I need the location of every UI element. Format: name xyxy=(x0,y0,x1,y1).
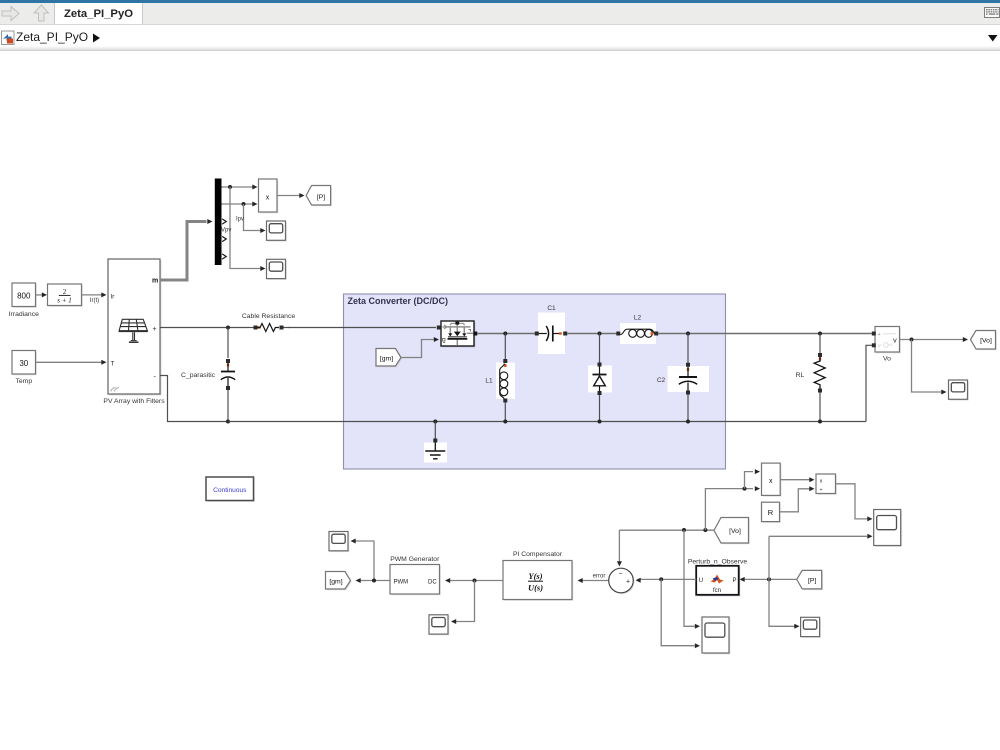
sum block xyxy=(609,568,635,594)
PI Compensator block xyxy=(503,551,573,601)
wire PI to PWM and scope xyxy=(445,578,503,624)
wire product to [P] xyxy=(277,193,305,198)
small corner glyph xyxy=(111,388,120,392)
capacitor C1 xyxy=(535,305,567,354)
svg-text:C2: C2 xyxy=(657,377,666,384)
svg-text:Continuous: Continuous xyxy=(213,487,247,494)
svg-text:L1: L1 xyxy=(485,378,493,385)
svg-text:C1: C1 xyxy=(547,305,556,312)
capacitor C2 (vertical) xyxy=(657,334,709,424)
resistor RL (vertical) xyxy=(796,334,826,424)
wire Vo to [Vo] tag and scope xyxy=(900,337,969,395)
svg-text:Temp: Temp xyxy=(15,378,32,385)
svg-text:Ir: Ir xyxy=(111,293,115,300)
breadcrumb model arrow xyxy=(93,34,100,43)
wire PWM to gm tag xyxy=(356,578,391,583)
constant R xyxy=(762,502,781,523)
scope gm xyxy=(329,532,349,553)
wire transfer fcn to PV Ir, label Ir(t) xyxy=(82,292,107,303)
svg-text:Vpv: Vpv xyxy=(221,227,231,233)
svg-text:m: m xyxy=(152,277,158,284)
wire P&O U out to sum + xyxy=(636,577,697,582)
mosfet block xyxy=(437,321,478,347)
svg-text:Perturb_n_Observe: Perturb_n_Observe xyxy=(688,559,748,566)
toolbar up arrow icon xyxy=(34,5,49,21)
wire demux out1 to product and scope (Vpv) xyxy=(222,185,266,272)
wire demux out2 to product and scope (Ipv) xyxy=(221,202,266,234)
demux (black bar) xyxy=(215,179,226,266)
wire P to scope P (input2) xyxy=(769,534,873,539)
transfer fcn 2/(s+1) xyxy=(48,284,83,307)
MATLAB function Perturb_n_Observe xyxy=(688,559,748,597)
breadcrumb simulink icon xyxy=(2,31,15,45)
svg-text:U: U xyxy=(699,578,703,584)
svg-text:2: 2 xyxy=(63,288,67,296)
powergui block Continuous xyxy=(206,477,255,502)
svg-text:+: + xyxy=(626,578,630,585)
svg-text:fcn: fcn xyxy=(713,588,721,594)
svg-text:30: 30 xyxy=(19,359,28,368)
svg-text:U(s): U(s) xyxy=(528,582,543,592)
wire R to divide xyxy=(780,486,815,512)
constant Temp 30 xyxy=(12,351,37,385)
svg-text:s + 1: s + 1 xyxy=(57,296,71,304)
wire Vo path into sum (top) xyxy=(617,530,622,567)
svg-text:error: error xyxy=(593,573,606,579)
ground xyxy=(424,420,447,463)
scope duty xyxy=(429,615,449,636)
goto tag [Vo] xyxy=(971,331,997,351)
svg-text:x: x xyxy=(769,478,773,485)
divide block xyxy=(816,474,837,495)
svg-text:PV Array with Filters: PV Array with Filters xyxy=(103,398,165,405)
svg-text:800: 800 xyxy=(17,292,31,301)
scope P (2 inputs) xyxy=(874,510,902,547)
diode D (vertical) xyxy=(588,334,612,424)
inductor L2 xyxy=(616,315,658,344)
wire gm to mosfet gate xyxy=(401,337,439,358)
goto tag [gm] bottom xyxy=(326,572,352,591)
toolbar forward arrow icon xyxy=(2,7,19,21)
wire 30 to PV T xyxy=(36,360,107,365)
svg-text:PWM: PWM xyxy=(394,579,409,585)
svg-text:[P]: [P] xyxy=(808,578,816,585)
scope V/U bottom (2 inputs) xyxy=(702,617,730,654)
scope Vo xyxy=(949,380,969,401)
breadcrumb dropdown triangle xyxy=(988,35,998,42)
scope small right xyxy=(801,617,821,638)
svg-text:Cable Resistance: Cable Resistance xyxy=(242,313,295,320)
svg-text:P: P xyxy=(733,578,737,584)
svg-text:DC: DC xyxy=(428,579,437,585)
svg-text:[Vo]: [Vo] xyxy=(729,528,741,535)
svg-text:−: − xyxy=(618,571,622,578)
svg-text:÷: ÷ xyxy=(820,487,823,493)
top rail mosfet to C1 xyxy=(477,332,536,336)
inductor L1 (vertical) xyxy=(485,334,515,424)
svg-text:PI Compensator: PI Compensator xyxy=(513,551,563,558)
svg-text:+: + xyxy=(153,326,157,333)
from tag [Vo] bottom xyxy=(714,518,750,545)
svg-text:Vo: Vo xyxy=(883,356,891,363)
tiny matlab logo xyxy=(711,575,724,584)
wire bottom rail up to Vo- xyxy=(866,345,872,421)
wire U to scope bottom (input2) xyxy=(661,579,700,648)
wire PV+ to mosfet xyxy=(160,326,436,330)
wire divide to scope P xyxy=(836,484,873,522)
goto tag [P] xyxy=(306,186,332,207)
wire PV- to bottom rail xyxy=(160,376,230,424)
svg-text:Ir(t): Ir(t) xyxy=(90,298,99,304)
PWM Generator block xyxy=(390,556,441,596)
svg-text:Irradiance: Irradiance xyxy=(9,311,39,318)
product block x (Vo^2) xyxy=(762,463,782,497)
wire sum to PI (error) xyxy=(578,573,609,583)
bottom rail xyxy=(228,421,866,423)
scope Ipv xyxy=(267,221,287,242)
keyboard icon top right xyxy=(985,8,1000,18)
svg-text:[gm]: [gm] xyxy=(329,579,342,586)
svg-text:Y(s): Y(s) xyxy=(528,571,542,581)
svg-text:[Vo]: [Vo] xyxy=(980,338,992,345)
from tag [gm] top xyxy=(376,349,402,368)
subsystem PV Array with Filters xyxy=(103,259,165,405)
product block x xyxy=(259,179,279,213)
svg-text:[P]: [P] xyxy=(317,194,325,201)
from tag [P] bottom xyxy=(797,570,823,590)
svg-text:T: T xyxy=(111,361,115,368)
wire 800 to transfer fcn xyxy=(36,292,48,297)
wire m (thick) xyxy=(160,219,213,280)
subsystem box Zeta Converter (DC/DC) xyxy=(344,294,726,469)
resistor Cable Resistance xyxy=(242,313,295,337)
svg-text:C_parasitic: C_parasitic xyxy=(181,372,216,379)
svg-text:Ipv: Ipv xyxy=(236,217,244,223)
svg-text:v: v xyxy=(893,336,897,345)
scope Vpv xyxy=(267,259,287,280)
svg-text:[gm]: [gm] xyxy=(380,356,393,363)
svg-text:PWM Generator: PWM Generator xyxy=(390,556,440,563)
voltage measurement Vo xyxy=(872,327,901,363)
svg-text:+: + xyxy=(878,332,881,338)
svg-text:RL: RL xyxy=(796,372,805,379)
solar panel icon xyxy=(119,319,148,342)
svg-text:R: R xyxy=(768,508,774,517)
constant Irradiance 800 xyxy=(9,283,39,318)
wire Vo branch down to scope bottom (input1) xyxy=(684,530,700,629)
wire [P] to P&O and branches xyxy=(740,536,800,629)
wire pwm out to scope gm xyxy=(351,539,375,581)
rail L2 out of box to the right xyxy=(658,332,872,336)
svg-text:x: x xyxy=(266,194,270,201)
svg-text:L2: L2 xyxy=(634,315,642,322)
svg-text:Zeta Converter (DC/DC): Zeta Converter (DC/DC) xyxy=(348,296,449,306)
capacitor C_parasitic xyxy=(181,328,239,422)
wire Vo to product2 (squaring) xyxy=(705,469,760,530)
wire product2 to divide xyxy=(780,477,814,482)
rail C1 to L2 xyxy=(567,332,617,336)
wire [Vo] to sum and branches xyxy=(619,528,714,532)
